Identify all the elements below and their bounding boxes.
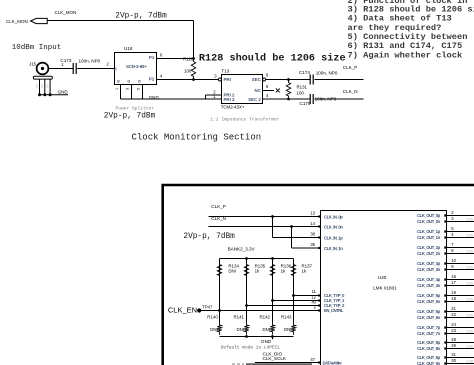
svg-text:CLK_P: CLK_P xyxy=(343,65,358,70)
svg-text:LVD: LVD xyxy=(467,233,474,237)
svg-text:28: 28 xyxy=(451,337,456,342)
svg-text:CLK_IN_1n: CLK_IN_1n xyxy=(324,246,343,251)
svg-text:CLK_OUT_2n: CLK_OUT_2n xyxy=(417,251,441,256)
svg-text:CLK_OUT_9n: CLK_OUT_9n xyxy=(417,361,441,365)
svg-text:1k: 1k xyxy=(302,269,307,274)
svg-text:CLK_OUT_0n: CLK_OUT_0n xyxy=(417,219,441,224)
svg-text:CLK_IN_1p: CLK_IN_1p xyxy=(324,235,343,240)
svg-text:CLK_OUT_5n: CLK_OUT_5n xyxy=(417,299,441,304)
svg-text:R128 should be 1206 size: R128 should be 1206 size xyxy=(199,52,346,64)
svg-text:LVD: LVD xyxy=(467,265,474,269)
svg-text:7) Again whether clock: 7) Again whether clock xyxy=(348,50,463,60)
svg-text:Clock Monitoring Section: Clock Monitoring Section xyxy=(132,133,262,143)
svg-text:CLK_SCLK: CLK_SCLK xyxy=(263,356,287,361)
svg-text:CLK_IN_0p: CLK_IN_0p xyxy=(324,214,343,219)
svg-text:1k: 1k xyxy=(255,269,260,274)
svg-text:CLK_OUT_7p: CLK_OUT_7p xyxy=(417,325,441,330)
svg-text:R136: R136 xyxy=(281,263,292,268)
svg-text:DNI: DNI xyxy=(262,327,270,332)
svg-text:NC: NC xyxy=(254,88,261,93)
svg-text:100: 100 xyxy=(184,69,192,74)
svg-text:GND: GND xyxy=(149,95,160,100)
svg-text:1k: 1k xyxy=(281,269,286,274)
svg-text:23: 23 xyxy=(451,328,456,333)
svg-text:LVD: LVD xyxy=(467,344,474,348)
svg-text:11: 11 xyxy=(312,289,317,294)
svg-text:2Vp-p, 7dBm: 2Vp-p, 7dBm xyxy=(183,233,235,241)
svg-text:10: 10 xyxy=(451,258,456,263)
svg-text:G: G xyxy=(115,80,120,83)
svg-text:LVD: LVD xyxy=(467,217,474,221)
svg-text:T13: T13 xyxy=(221,69,229,74)
svg-text:5: 5 xyxy=(136,88,140,90)
svg-text:G: G xyxy=(137,80,142,83)
svg-text:R143: R143 xyxy=(281,314,292,319)
svg-text:16: 16 xyxy=(451,274,456,279)
svg-text:EN_CNTRL: EN_CNTRL xyxy=(324,308,344,313)
svg-text:CLK_OUT_9p: CLK_OUT_9p xyxy=(417,355,441,360)
svg-text:CLK_OUT_1p: CLK_OUT_1p xyxy=(417,229,441,234)
svg-text:C175: C175 xyxy=(300,101,311,106)
svg-text:R134: R134 xyxy=(228,263,239,268)
svg-text:17: 17 xyxy=(451,280,456,285)
svg-text:MH: MH xyxy=(41,84,44,88)
svg-text:CLK_OUT_3n: CLK_OUT_3n xyxy=(417,267,441,272)
svg-text:22: 22 xyxy=(451,312,456,317)
svg-text:39: 39 xyxy=(310,242,315,247)
svg-text:LVD: LVD xyxy=(467,281,474,285)
svg-text:3: 3 xyxy=(126,88,130,90)
svg-text:SEC: SEC xyxy=(252,77,262,82)
svg-text:100n, NP0: 100n, NP0 xyxy=(315,96,337,101)
svg-text:30: 30 xyxy=(451,358,456,363)
svg-text:100n, NP0: 100n, NP0 xyxy=(79,58,101,63)
svg-text:21: 21 xyxy=(451,306,456,311)
svg-text:24: 24 xyxy=(451,322,456,327)
svg-text:BANK2_3.3V: BANK2_3.3V xyxy=(228,246,256,251)
svg-text:19: 19 xyxy=(451,290,456,295)
svg-text:Default mode is LVPECL: Default mode is LVPECL xyxy=(221,345,281,351)
svg-text:PRI 3: PRI 3 xyxy=(224,97,236,102)
svg-text:1: 1 xyxy=(115,88,119,90)
svg-text:29: 29 xyxy=(451,343,456,348)
svg-text:2Vp-p, 7dBm: 2Vp-p, 7dBm xyxy=(115,12,167,20)
svg-text:CLK_MON: CLK_MON xyxy=(55,10,77,15)
svg-text:14: 14 xyxy=(310,221,315,226)
svg-text:MH: MH xyxy=(47,84,50,88)
svg-text:47: 47 xyxy=(310,357,315,362)
svg-text:CLK_N: CLK_N xyxy=(343,89,358,94)
svg-text:U18: U18 xyxy=(124,46,133,51)
svg-text:C174: C174 xyxy=(299,70,310,75)
svg-text:PRI: PRI xyxy=(224,77,231,82)
svg-text:LVD: LVD xyxy=(467,313,474,317)
svg-text:1:2 Impedance Transformer: 1:2 Impedance Transformer xyxy=(210,117,279,123)
svg-text:R142: R142 xyxy=(260,314,271,319)
svg-text:R141: R141 xyxy=(234,314,245,319)
svg-text:10dBm Input: 10dBm Input xyxy=(12,44,62,52)
svg-text:MH: MH xyxy=(36,84,39,88)
svg-text:13: 13 xyxy=(310,210,315,215)
svg-text:Power Splitter: Power Splitter xyxy=(116,106,155,112)
svg-text:G: G xyxy=(126,80,131,83)
svg-text:100n, NP0: 100n, NP0 xyxy=(316,71,338,76)
svg-text:SCN-2-65+: SCN-2-65+ xyxy=(126,64,147,69)
svg-text:CLK_OUT_8n: CLK_OUT_8n xyxy=(417,346,441,351)
svg-text:C173: C173 xyxy=(60,58,71,63)
svg-text:LMK 01801: LMK 01801 xyxy=(373,285,397,290)
svg-text:100: 100 xyxy=(297,91,305,96)
svg-text:CLK_MON: CLK_MON xyxy=(6,19,28,24)
svg-text:31: 31 xyxy=(451,352,456,357)
svg-text:CLK_OUT_5p: CLK_OUT_5p xyxy=(417,293,441,298)
svg-text:DNI: DNI xyxy=(284,327,292,332)
svg-text:CLK_OUT_4n: CLK_OUT_4n xyxy=(417,283,441,288)
svg-text:GND: GND xyxy=(261,339,272,344)
svg-text:38: 38 xyxy=(310,232,315,237)
svg-text:CLK_OUT_6p: CLK_OUT_6p xyxy=(417,309,441,314)
svg-text:DNI: DNI xyxy=(236,327,244,332)
svg-text:CLK_EN: CLK_EN xyxy=(168,305,197,314)
svg-text:R140: R140 xyxy=(207,314,218,319)
svg-text:CLK_OUT_4p: CLK_OUT_4p xyxy=(417,277,441,282)
svg-text:LVD: LVD xyxy=(467,359,474,363)
svg-text:R131: R131 xyxy=(297,85,308,90)
svg-text:R128: R128 xyxy=(183,56,194,61)
svg-text:CLK_OUT_3p: CLK_OUT_3p xyxy=(417,261,441,266)
svg-text:CLK_OUT_2p: CLK_OUT_2p xyxy=(417,245,441,250)
svg-text:R137: R137 xyxy=(302,263,313,268)
svg-text:DNI: DNI xyxy=(228,269,236,274)
svg-text:2Vp-p, 7dBm: 2Vp-p, 7dBm xyxy=(104,113,156,121)
svg-text:R135: R135 xyxy=(255,263,266,268)
svg-text:CLK_OUT_8p: CLK_OUT_8p xyxy=(417,340,441,345)
svg-text:TP47: TP47 xyxy=(202,304,213,309)
svg-text:U20: U20 xyxy=(378,275,387,280)
svg-text:CLK_IN_0n: CLK_IN_0n xyxy=(324,224,343,229)
svg-text:LVD: LVD xyxy=(467,329,474,333)
svg-text:CLK_OUT_0p: CLK_OUT_0p xyxy=(417,213,441,218)
svg-text:GND: GND xyxy=(58,90,69,95)
svg-text:CLK_OUT_6n: CLK_OUT_6n xyxy=(417,315,441,320)
svg-text:S: S xyxy=(112,68,117,71)
svg-text:DNI: DNI xyxy=(210,327,218,332)
svg-text:CLK_OUT_7n: CLK_OUT_7n xyxy=(417,331,441,336)
svg-text:SEC 2: SEC 2 xyxy=(248,97,261,102)
svg-text:P1: P1 xyxy=(149,55,155,60)
svg-text:18: 18 xyxy=(451,296,456,301)
svg-text:LVD: LVD xyxy=(467,297,474,301)
svg-text:TCM2-43X+: TCM2-43X+ xyxy=(221,104,245,109)
svg-text:J15: J15 xyxy=(29,62,37,67)
svg-text:CLK_P: CLK_P xyxy=(211,204,226,209)
svg-text:LVD: LVD xyxy=(467,249,474,253)
svg-text:P2: P2 xyxy=(149,76,155,81)
svg-text:DATAuWire: DATAuWire xyxy=(323,361,343,365)
svg-text:CLK_OUT_1n: CLK_OUT_1n xyxy=(417,235,441,240)
